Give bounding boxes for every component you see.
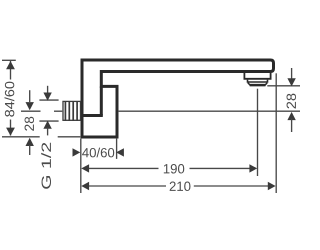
dim 210 arrow right <box>268 182 276 190</box>
axis line main <box>119 110 300 112</box>
dim 210 arrow left <box>81 182 89 190</box>
outlet step1 box <box>244 73 270 79</box>
dim 28 right arrow down <box>287 78 295 86</box>
dim 28 left tail down <box>29 145 31 155</box>
dim text 190 <box>164 164 184 173</box>
dim G1/2 arrow down <box>43 93 51 101</box>
dim 190 arrow left <box>81 164 89 172</box>
dim G1/2 tail up <box>47 86 49 93</box>
aerator bottom face <box>250 84 266 87</box>
dim 190 arrow right <box>249 164 257 172</box>
threaded nipple G1/2 body <box>63 101 81 120</box>
axis line nipple stub <box>54 110 62 112</box>
dim 28 right tail down <box>291 119 293 133</box>
arm end extension line <box>275 73 277 193</box>
wall face extension line (bottom dims left) <box>80 139 82 193</box>
dim 84/60 arrow down <box>6 128 15 136</box>
bottom extension line (right part, to flange corner) <box>58 136 81 138</box>
inner step horizontal H4 <box>82 114 103 117</box>
axis line left segment (28 ext) <box>21 110 41 112</box>
dim text 40/60 <box>82 148 114 158</box>
dim 28 right arrow up <box>287 112 295 120</box>
aerator face extension line right <box>267 85 300 87</box>
dim 84/60 arrow up <box>6 61 15 69</box>
dim text 28 left <box>25 117 34 131</box>
dim 28 left tail up <box>29 90 31 102</box>
nipple bottom extension line <box>39 120 58 122</box>
inner step vertical V1 lower <box>100 86 103 115</box>
outlet step2 box <box>248 80 268 82</box>
aerator center line <box>257 89 259 176</box>
aerator trapezoid <box>248 83 267 85</box>
dim 28 right tail up <box>291 68 293 79</box>
dim 190 line left <box>89 167 159 169</box>
dim 40/60 arrow left (pointing right) <box>73 148 81 156</box>
dim text 210 <box>170 182 191 191</box>
flange right extension line (40/60) <box>116 139 118 159</box>
nipple top extension line <box>39 99 58 101</box>
dim G1/2 arrow up <box>43 121 51 129</box>
dim 210 line left <box>89 185 166 187</box>
nipple thread hatching <box>65 101 77 121</box>
bottom extension line (flange bottom, left) <box>2 136 40 138</box>
dim 210 line right <box>194 185 268 187</box>
dim text 84/60 <box>4 82 14 117</box>
dim 190 line right <box>190 167 250 169</box>
dim 40/60 arrow right (pointing left) <box>116 148 124 156</box>
arm top extension stub <box>2 59 16 61</box>
dim 28 left arrow down <box>26 102 34 110</box>
dim 84/60 line upper <box>10 61 12 80</box>
spout outer profile <box>82 60 274 137</box>
dim 28 left arrow up <box>26 138 34 146</box>
dim 84/60 line lower <box>10 120 12 136</box>
dim G1/2 tail down <box>47 128 49 136</box>
dim text 28 right <box>287 94 296 109</box>
dim text G 1/2 <box>41 143 51 189</box>
